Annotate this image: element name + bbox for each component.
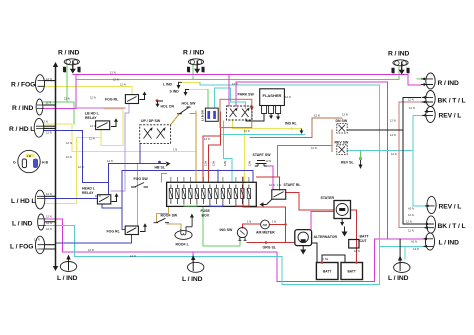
svg-text:12 N: 12 N [66,155,72,159]
wire: magenta mid run right [236,82,387,239]
svg-text:O Na: O Na [322,257,329,261]
svg-text:1 N: 1 N [173,148,177,152]
svg-text:BATT: BATT [323,270,331,274]
headlight beam gauge [18,150,40,172]
svg-text:14 N: 14 N [413,247,419,251]
wire: blue relay bottom link [102,204,122,208]
wire: blue relay top feed [108,164,110,195]
bulb L/HDL [35,190,45,209]
fuse elements [169,185,250,205]
ground bus left [55,65,57,268]
wire: black L/FOG second pin [45,248,56,250]
bulb L/IND bottom-center [188,262,204,272]
wire: yellow long run to fuse area [72,151,196,153]
svg-text:12 N: 12 N [64,97,70,101]
svg-text:L IND: L IND [163,83,173,87]
svg-text:1 N: 1 N [272,220,276,224]
wire: green short drop left [73,102,75,124]
bulb BK/T/L right-top [426,91,435,107]
svg-text:12 N: 12 N [311,146,317,150]
svg-text:12 N: 12 N [46,101,52,105]
wire: yellow LB relay to FOG RL1 link [101,109,123,145]
wire: lavender FOG RL1 to HEAD L relay [111,104,129,191]
wire: red fuse box to start relay [256,177,279,190]
svg-text:BK / T / L: BK / T / L [438,98,466,105]
svg-text:12 N: 12 N [34,238,40,242]
flasher unit [260,89,285,106]
svg-text:L / IND: L / IND [57,275,78,282]
svg-text:AM: AM [263,223,268,227]
svg-text:12 N: 12 N [90,124,96,128]
svg-text:12 N: 12 N [391,152,397,156]
svg-text:FOG SW: FOG SW [134,177,149,181]
wire: magenta R/IND left bulb link [45,108,77,110]
junction dot HB SL [158,161,161,164]
relay LB HD L [96,121,110,130]
svg-text:1 N: 1 N [247,220,251,224]
flasher terminal 3 arrow [277,114,279,118]
wire: cyan main top run [200,82,380,85]
flasher terminal 2 arrow [270,114,272,117]
wire: brown BK/T/L stub column [399,102,426,228]
wire: orange fuse stub left [162,174,167,182]
bulb L/FOG [35,236,44,254]
wire: yellow R/FOG feed to FOG RL [45,86,133,94]
wire: orange HOL SW to fuse box [190,111,196,182]
battery 1 [316,263,338,280]
ground alternator [302,246,304,250]
svg-text:12 N: 12 N [78,165,84,169]
svg-text:L / IND: L / IND [388,275,409,282]
svg-text:R / IND: R / IND [58,50,79,57]
svg-text:BOX: BOX [202,214,210,218]
svg-text:L / IND: L / IND [12,221,33,228]
svg-text:FOG RL: FOG RL [105,98,119,102]
switch DN SW [337,123,347,133]
switch UP/DP SW box [140,125,171,144]
svg-text:12 N: 12 N [408,229,414,233]
wire: yellow IND RL run [233,120,302,129]
bulb R/IND top-center [188,59,203,65]
svg-text:R / IND: R / IND [438,80,459,87]
wire: green LIB switch feed [207,90,209,109]
relay START RL [272,190,286,200]
wire: cyan L/IND left bulb drop [46,225,75,256]
wire: magenta alternator to starter [311,212,334,230]
fuse box top stubs [171,177,249,182]
wire: magenta bottom long run [63,239,375,282]
svg-text:12N: 12N [391,68,395,73]
svg-text:L / HD L: L / HD L [11,198,35,205]
svg-text:12 N: 12 N [390,133,396,137]
switch REV SW [337,145,347,155]
ground start relay [262,199,272,204]
bulb R/FOG [35,75,44,93]
switch FOG SW [131,183,148,188]
wire: tan roof switch to lamp [167,224,181,229]
svg-text:L / FOG: L / FOG [10,244,33,251]
wire: magenta drop to bottom-center L/IND bulb [192,252,194,262]
svg-text:12 N: 12 N [354,249,360,253]
relay HEAD L [97,195,110,204]
svg-text:12 N: 12 N [107,159,113,163]
svg-text:12 N: 12 N [66,141,72,145]
wire: cyan short top link [215,88,231,108]
svg-text:HEAD L: HEAD L [82,187,96,191]
svg-text:R / IND: R / IND [183,50,204,57]
svg-text:12 N: 12 N [342,113,348,117]
wire: black pins R/FOG [44,80,56,82]
wire: cyan REV SW to REV/L top [347,115,425,150]
wire: blue fuse drop [217,170,219,182]
svg-text:A2 N: A2 N [411,240,417,244]
wire: cyan park switch to fuse box [224,121,232,182]
battery 2 [341,263,363,280]
bulb L/IND bottom-right [394,263,410,273]
wire: red starter to battery [351,210,357,263]
tiny rotated fuse labels [204,161,252,166]
ground near batt cut [344,227,346,233]
wire: indigo long run to fuse box [122,170,253,182]
bulb REV/L right-top [426,107,435,123]
switch ROOF SW [154,218,170,222]
svg-text:L B: L B [27,154,31,158]
svg-text:12N: 12N [248,161,252,166]
svg-text:12 N: 12 N [46,215,52,219]
svg-text:G: G [13,161,16,165]
TEXT_LAYER [9,50,465,284]
svg-text:12N: 12N [201,67,205,72]
bulb R/IND top-left [64,59,79,65]
svg-text:DN SW: DN SW [336,119,348,123]
switch START SW [255,161,267,167]
svg-text:L I B SW: L I B SW [201,110,205,121]
wire: brown park loop [250,118,342,138]
switch IGN SW [237,228,247,238]
svg-text:12N: 12N [187,67,191,72]
svg-text:12 N: 12 N [409,106,415,110]
relay FOG RL top [125,95,138,104]
meter AM METER [261,220,270,229]
wire: red start relay to starter [286,192,334,210]
wire: magenta bottom right run to L/IND bulb [374,238,424,240]
wire: black pins R/IND left [44,104,56,106]
svg-text:12N: 12N [77,67,81,72]
wire: blue HB SL line [109,143,161,163]
svg-text:START RL: START RL [284,183,302,187]
wire: indigo drop to FOG RL2 [122,170,125,229]
wire: green fuse box to IGN SW [203,206,240,246]
wire: brown switch column [331,130,333,151]
wire: magenta top main run [73,75,421,85]
arrow HB SL ground [161,163,166,165]
svg-text:12 N: 12 N [88,248,94,252]
svg-text:1 N: 1 N [277,183,281,187]
svg-text:12 N: 12 N [46,131,52,135]
switch PARK SW box [220,99,252,127]
svg-text:ING SW: ING SW [220,228,234,232]
relay BATT CUT [349,240,359,249]
bulb L/IND right [425,233,434,250]
svg-text:12N: 12N [212,161,216,166]
wire: black battery bridge [322,255,345,263]
svg-text:12 N: 12 N [314,114,320,118]
svg-text:PARK SW: PARK SW [238,93,255,97]
wire: indigo bus to FOG RL2 [56,235,132,244]
svg-text:RELAY: RELAY [82,191,94,195]
relay FOG RL bottom [125,226,138,235]
wire: green REV SL stub [360,151,362,157]
lamp ROOF L [175,231,192,240]
svg-text:ROOF L: ROOF L [176,243,190,247]
svg-text:ORG SL: ORG SL [263,246,277,250]
wire: magenta L/IND left bulb drop [46,219,63,252]
svg-text:12 N: 12 N [46,192,52,196]
svg-text:12 N: 12 N [46,221,52,225]
svg-text:CUT: CUT [360,239,368,243]
svg-text:FOG RL: FOG RL [107,230,121,234]
lamp signal HOL ON [156,99,159,102]
svg-text:R / HD L: R / HD L [9,126,34,133]
svg-text:S IND: S IND [170,90,180,94]
wire: red fuse feeds [203,112,221,182]
wire: black alternator to battery [312,243,317,263]
bulb R/IND right [426,73,435,89]
svg-text:12 N: 12 N [285,95,291,99]
alternator [295,230,312,246]
starter ground pin [341,219,343,223]
bulb REV/L right-bottom [427,196,436,213]
wire: tan roof switch feed [156,206,168,221]
svg-text:12 N: 12 N [95,194,101,198]
svg-text:R / FOG: R / FOG [11,82,35,89]
svg-text:BK / T / L: BK / T / L [438,223,466,230]
wire: indigo L/HDL to relay [45,198,98,200]
switch HOL SW [177,107,191,114]
svg-text:12 N: 12 N [408,213,414,217]
wire: cyan mid run [220,133,305,135]
svg-text:12 N: 12 N [406,220,412,224]
signal IND RL [290,127,293,130]
svg-text:12 N: 12 N [89,137,95,141]
svg-text:ROOF SW: ROOF SW [161,214,178,218]
svg-text:REV / L: REV / L [439,204,462,211]
bulb R/HDL [34,118,44,137]
svg-text:12N: 12N [406,68,410,73]
wire: black BK/T/L column [403,97,426,224]
signal REV SL [359,157,362,160]
bulb R/IND top-right [393,60,408,66]
svg-text:ALTERNATOR: ALTERNATOR [314,235,338,239]
svg-text:H B: H B [42,161,49,165]
wire: lavender fog relay2 feed [137,164,139,226]
svg-text:12 N: 12 N [244,129,250,133]
svg-text:R / IND: R / IND [12,105,33,112]
COMPONENTS_LAYER [18,59,436,280]
svg-text:RELAY: RELAY [85,116,97,120]
svg-text:L / IND: L / IND [182,276,203,283]
tiny wire gauge labels [34,71,419,262]
wire: blue R/HDL to head relay [44,130,109,182]
junction dots [265,223,358,264]
svg-text:HOL SW: HOL SW [182,102,197,106]
svg-text:12 N: 12 N [90,96,96,100]
svg-text:12N: 12N [204,161,208,166]
svg-text:12 N: 12 N [110,71,116,75]
svg-text:R / IND: R / IND [388,51,409,58]
wire: red ORG SL run [247,242,295,244]
arrow roof lamp ground [186,217,192,229]
WIRES_LAYER [43,64,426,285]
svg-text:12 N: 12 N [130,254,136,258]
svg-text:A3 N: A3 N [408,207,414,211]
svg-text:HOL ON: HOL ON [161,105,175,109]
wire: yellow L/HDL up leg [45,137,102,203]
svg-text:12 N: 12 N [46,227,52,231]
bulb BK/T/L right-bottom [426,216,435,233]
wire: yellow S IND stub [189,89,208,91]
wire: yellow flasher feed down to fuse box [244,129,246,182]
svg-text:UP / DP SW: UP / DP SW [141,119,161,123]
arrow S IND ground [186,90,190,94]
svg-text:REV SW: REV SW [335,141,350,145]
svg-text:12N: 12N [223,161,227,166]
svg-text:12 N: 12 N [204,137,210,141]
wire: yellow R/HDL down leg [44,124,73,152]
wire: magenta top-left drop [75,75,77,109]
wire: green indicator run bulb2 to bulb3 [77,65,399,79]
motor STARTER [334,201,351,219]
svg-text:STATER: STATER [321,196,335,200]
svg-text:REV SL: REV SL [341,161,355,165]
svg-text:IND RL: IND RL [285,122,298,126]
svg-text:LB HD L: LB HD L [85,112,100,116]
wire: cyan REV/L column vertical [413,115,426,205]
wire: magenta park switch feed [228,75,230,106]
svg-text:12 N: 12 N [42,120,48,124]
wire: cyan drop to bottom-right bulb [404,246,406,259]
jumper wires under fuses [184,204,197,206]
arrow L IND ground [179,82,183,86]
wire: red IGN SW top [242,224,260,228]
wire: orange to UP/DP [171,114,180,125]
svg-text:12 N: 12 N [390,119,396,123]
wire: yellow L IND stub [182,81,200,83]
svg-text:L / IND: L / IND [439,240,460,247]
bulb L/IND left [38,214,45,230]
wire: black flasher terminal loop [246,114,264,121]
svg-text:BATT: BATT [348,270,356,274]
svg-text:12 N: 12 N [113,78,119,82]
svg-text:12 N: 12 N [408,98,414,102]
wire: black pins L/IND left [45,221,56,223]
svg-text:12 N: 12 N [232,82,238,86]
fuse box [167,182,257,206]
bulb L/IND bottom-left [60,262,76,272]
svg-text:REV / L: REV / L [439,113,462,120]
wire: cyan bottom long run [75,257,380,285]
wire: cyan right bottom stub to L/IND right [380,245,426,247]
wire: black pins L/HDL [44,195,56,197]
wire: lavender headlamp relay feed [76,107,125,109]
svg-text:12 N: 12 N [266,159,272,163]
svg-text:12 N: 12 N [120,82,126,86]
svg-text:HB SL: HB SL [155,166,166,170]
svg-text:FUSE: FUSE [201,209,211,213]
svg-text:START SW: START SW [253,153,272,157]
wire: cyan right long vertical [379,85,381,285]
wire: cyan park switch feed [231,88,246,108]
svg-text:12 N: 12 N [46,77,52,81]
svg-text:12N: 12N [63,67,67,72]
wire: black pins L/FOG [44,244,56,246]
svg-text:FLASHER: FLASHER [263,93,282,98]
svg-text:AM METER: AM METER [256,231,275,235]
switch L I B SW box [205,108,218,121]
wire: red ammeter link [269,224,285,226]
wire: brown rev feed [278,146,332,177]
wire: red lower ignition feed [243,177,285,243]
wire: black DN SW run [347,129,403,131]
bulb R/IND left [36,99,43,115]
wire: green top-left bulb leg [43,64,74,102]
svg-text:12 N: 12 N [269,183,275,187]
wire: magenta start switch to relay [267,166,273,190]
wire: black pins R/HDL [43,126,56,128]
